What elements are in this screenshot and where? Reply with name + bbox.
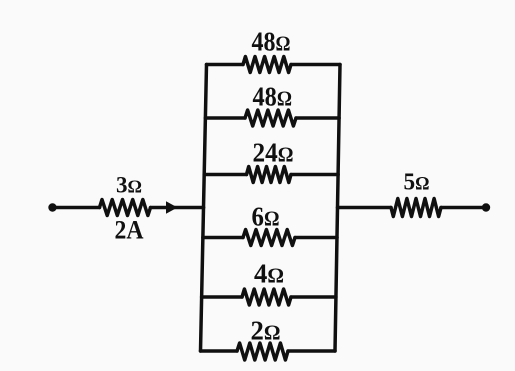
resistor 24ohm — [247, 167, 292, 183]
resistor 2ohm — [237, 343, 288, 360]
wire: left terminal to R 3ohm — [53, 206, 100, 210]
node: left terminal — [48, 203, 56, 211]
svg-text:6Ω: 6Ω — [252, 202, 280, 232]
resistor 4ohm — [242, 289, 291, 305]
resistor 3ohm — [100, 200, 151, 216]
svg-text:5Ω: 5Ω — [404, 170, 430, 196]
wire: R 3ohm to left bus, with current arrow — [151, 206, 204, 210]
svg-text:2A: 2A — [115, 216, 144, 245]
svg-text:3Ω: 3Ω — [116, 173, 142, 198]
wire: right bus to R 5ohm — [338, 206, 392, 210]
wire: right vertical bus — [335, 65, 340, 352]
svg-text:2Ω: 2Ω — [251, 316, 281, 346]
svg-text:48Ω: 48Ω — [252, 27, 291, 57]
resistor 5ohm — [391, 199, 441, 217]
resistor 48ohm (second) — [245, 110, 296, 126]
svg-text:48Ω: 48Ω — [253, 82, 293, 112]
svg-text:4Ω: 4Ω — [254, 259, 284, 289]
branch 1 wires — [207, 63, 244, 67]
branch 4 wires — [203, 236, 243, 240]
node: right terminal — [482, 203, 490, 211]
branch 2 wires — [205, 116, 245, 120]
svg-text:24Ω: 24Ω — [253, 138, 294, 168]
resistor 48ohm (top) — [243, 57, 291, 73]
resistor 6ohm — [243, 230, 295, 246]
branch 5 wires — [202, 295, 242, 299]
branch 3 wires — [204, 173, 246, 177]
branch 6 wires — [201, 349, 238, 353]
current direction arrow (2A) — [166, 201, 178, 213]
wire: R 5ohm to right terminal — [441, 206, 486, 210]
wire: left vertical bus — [201, 65, 207, 352]
